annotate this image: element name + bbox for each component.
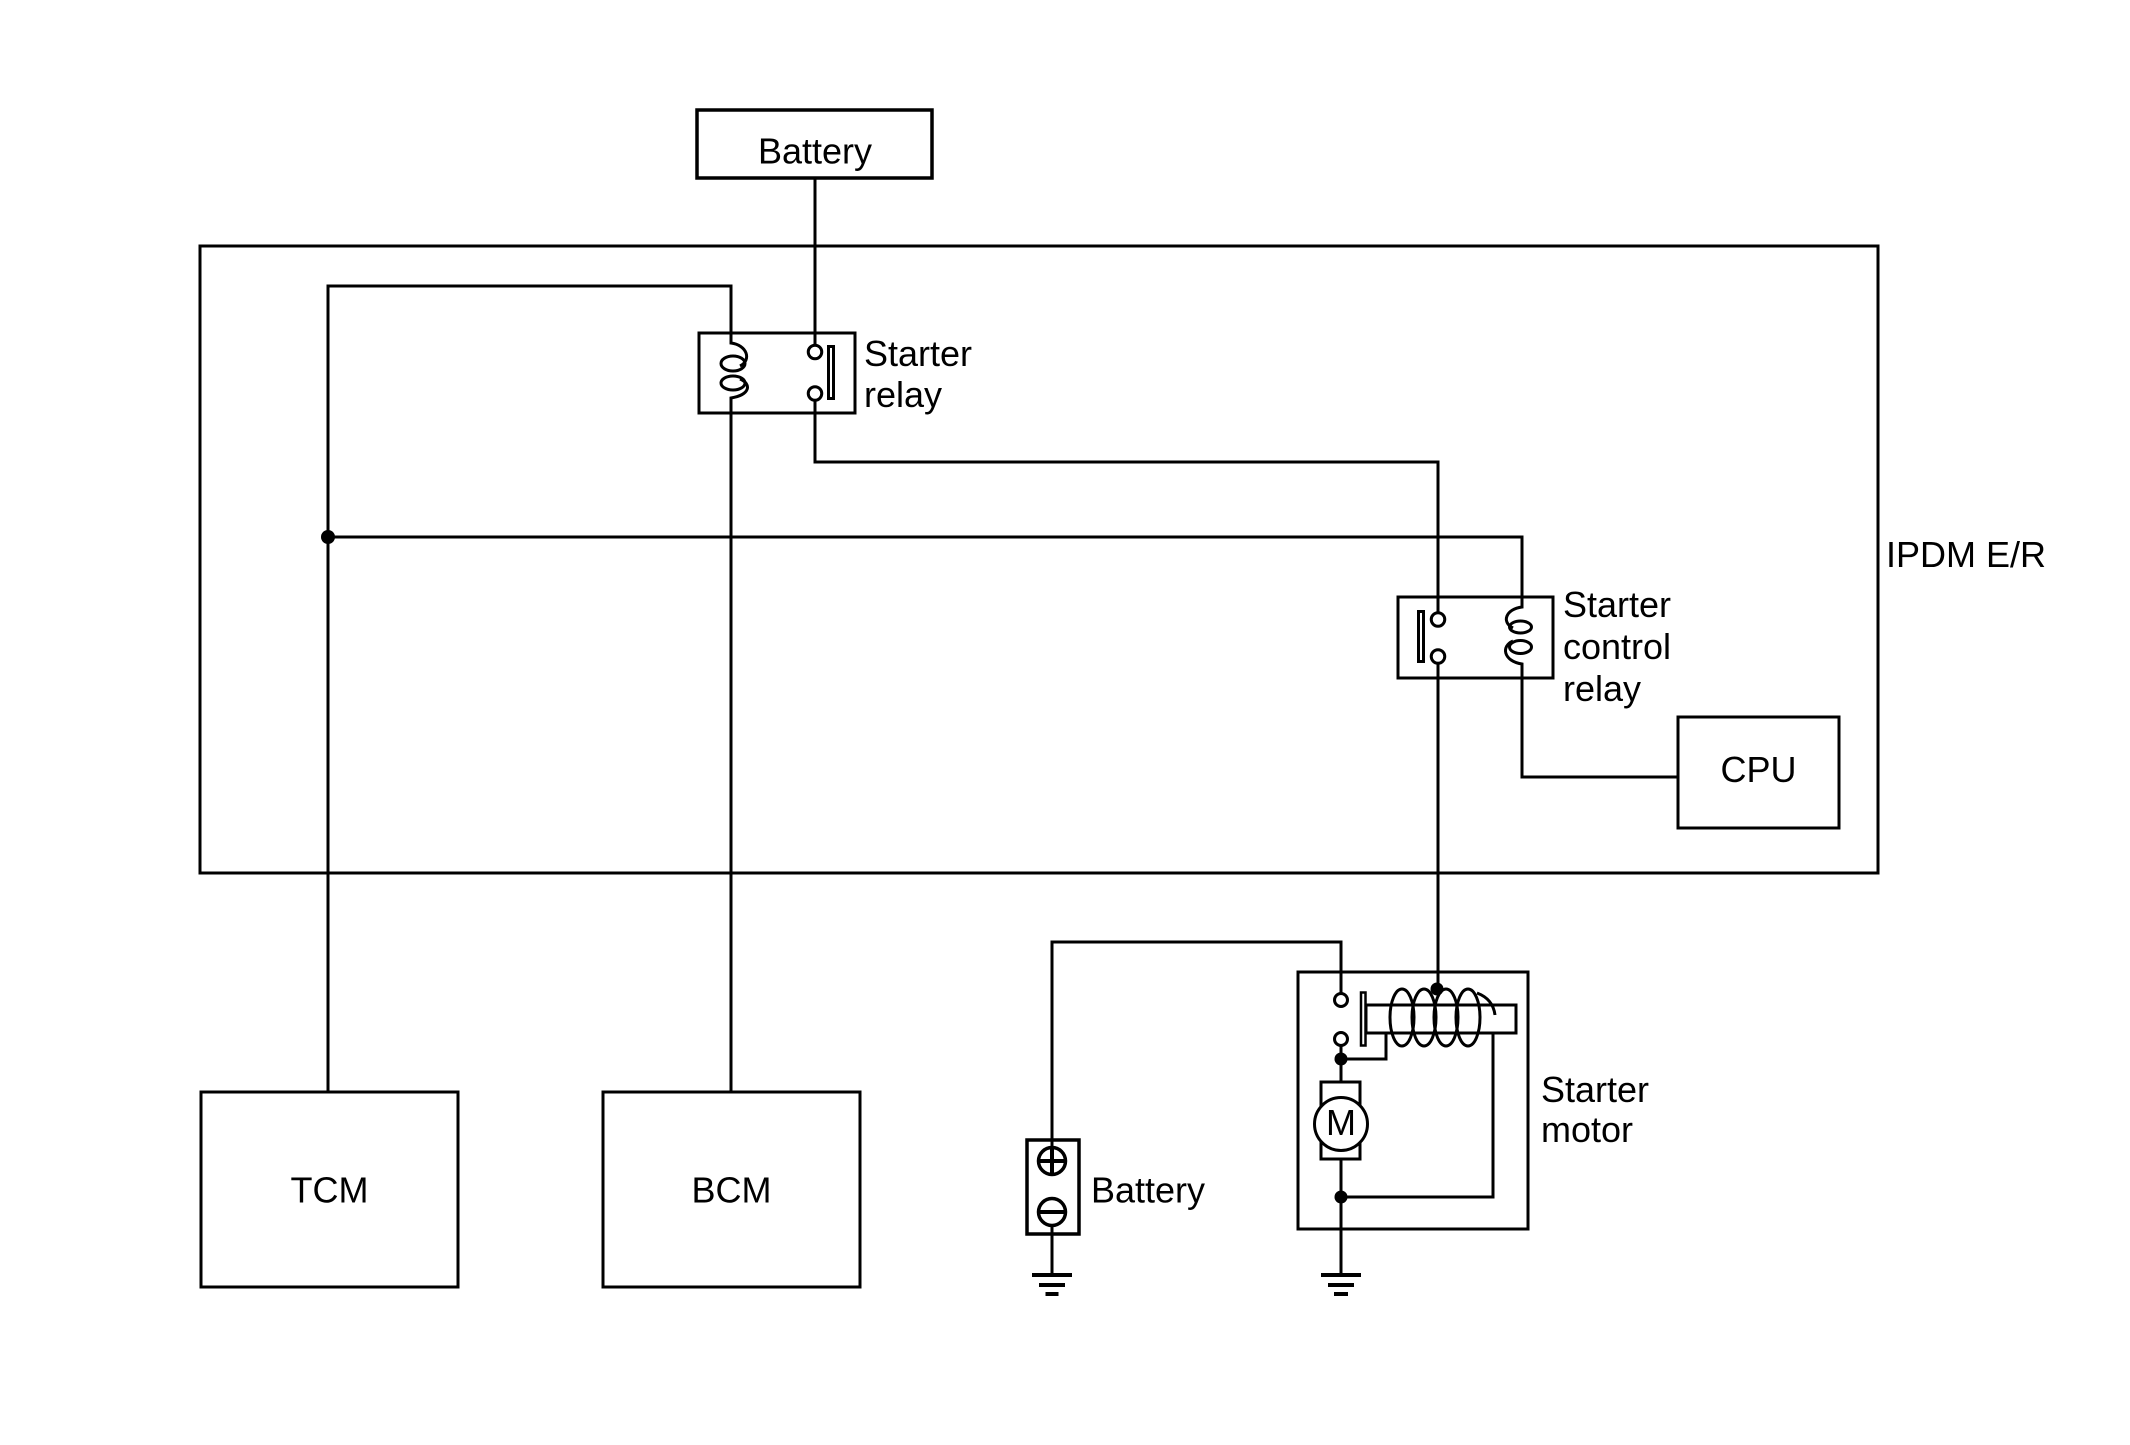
svg-text:Battery: Battery — [1091, 1170, 1205, 1211]
svg-text:relay: relay — [1563, 668, 1641, 709]
svg-text:M: M — [1326, 1102, 1356, 1143]
svg-text:relay: relay — [864, 374, 942, 415]
svg-text:Battery: Battery — [758, 131, 872, 172]
svg-text:BCM: BCM — [692, 1170, 772, 1211]
svg-text:Starter: Starter — [864, 333, 972, 374]
svg-text:TCM: TCM — [291, 1170, 369, 1211]
svg-text:IPDM E/R: IPDM E/R — [1886, 534, 2046, 575]
svg-text:CPU: CPU — [1720, 749, 1796, 790]
svg-text:control: control — [1563, 626, 1671, 667]
svg-text:motor: motor — [1541, 1109, 1633, 1150]
svg-text:Starter: Starter — [1541, 1069, 1649, 1110]
svg-text:Starter: Starter — [1563, 584, 1671, 625]
